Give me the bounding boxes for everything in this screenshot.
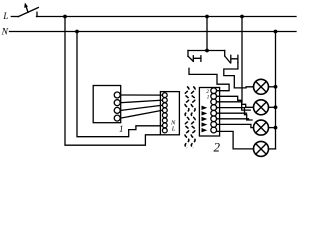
wire EL3 to N bus bbox=[269, 127, 276, 129]
switch S1 fixed contact bbox=[36, 12, 38, 16]
wire: L drop wrapping under box 1 to control unit bbox=[65, 17, 160, 146]
wire L rail bbox=[37, 16, 297, 18]
wire: K1 output to receiver terminal 2 bbox=[189, 68, 229, 90]
wire EL4 to N bus bbox=[269, 148, 276, 150]
svg-text:N: N bbox=[1, 27, 9, 37]
wire EL1 to N bus bbox=[269, 86, 276, 88]
lamp EL2 bbox=[254, 100, 269, 115]
wire box1 d to control unit bbox=[121, 110, 163, 118]
contact K2 blade bbox=[225, 56, 231, 63]
wire: receiver out 7 to lamp EL3 bbox=[217, 124, 254, 127]
lamp EL3 bbox=[254, 120, 269, 135]
radio link wavy line 1 bbox=[185, 87, 189, 148]
wire: L feed to receiver terminal 1 bbox=[217, 17, 243, 102]
contact K1 fixed contact bbox=[193, 56, 201, 62]
node: L tap for contact bus bbox=[205, 15, 209, 19]
svg-text:L: L bbox=[2, 11, 8, 21]
node: N tap right bbox=[274, 30, 278, 34]
receiver pin triangle t8 bbox=[202, 128, 208, 132]
node: contact bus junction bbox=[205, 49, 209, 53]
box 1 terminal d bbox=[114, 115, 120, 121]
node: EL1 junction bbox=[274, 85, 278, 89]
receiver box 2 bbox=[199, 88, 219, 137]
wire EL2 to N bus bbox=[269, 106, 276, 108]
wire box1 c to control unit bbox=[121, 105, 163, 110]
switch S1 actuator arrow bbox=[24, 3, 28, 13]
wire: K2 output to lamp EL1 bbox=[224, 63, 254, 88]
contact K1 blade bbox=[188, 56, 193, 61]
switch S1 blade bbox=[18, 8, 38, 17]
wire box1 b to control unit bbox=[121, 100, 163, 103]
wire: drop to contact bus bbox=[206, 17, 208, 51]
wire: receiver out 3 stub bbox=[217, 102, 251, 110]
control unit box (transmitter side of remote device) bbox=[160, 92, 179, 135]
receiver pin triangle t4 bbox=[202, 106, 208, 110]
contact K1 lead bbox=[187, 51, 189, 57]
switch S1 lead bbox=[11, 16, 18, 18]
contact K2 fixed contact bbox=[231, 55, 238, 62]
node: L tap left bbox=[63, 15, 67, 19]
node: EL3 junction bbox=[274, 126, 278, 130]
lamp EL4 bbox=[254, 141, 269, 156]
receiver terminals bbox=[211, 88, 217, 133]
receiver pin triangle t7 bbox=[202, 122, 208, 126]
box 1 terminal c bbox=[114, 107, 120, 113]
svg-text:1: 1 bbox=[119, 124, 124, 134]
svg-text:1: 1 bbox=[207, 94, 210, 100]
box 1 terminal a bbox=[114, 92, 120, 98]
control unit terminals bbox=[162, 93, 167, 133]
receiver pin triangle t5 bbox=[202, 111, 208, 115]
wire box1 a to control unit bbox=[121, 94, 163, 96]
lamp EL1 bbox=[254, 79, 269, 94]
wire: receiver out 5 stub bbox=[217, 112, 247, 114]
wire: receiver out 2 to lamp EL2 bbox=[217, 96, 254, 107]
svg-text:2: 2 bbox=[214, 140, 221, 155]
wire N rail bbox=[10, 31, 297, 33]
wire: receiver out 6 stub bbox=[217, 118, 249, 120]
wire: N bus down to lamps bbox=[275, 32, 277, 149]
receiver pin triangle t6 bbox=[202, 117, 208, 121]
node: EL2 junction bbox=[274, 105, 278, 109]
transmitter box 1 bbox=[93, 86, 121, 123]
wire: receiver out 4 stub bbox=[217, 108, 253, 120]
contact K2 lead bbox=[224, 51, 226, 57]
wire: contact bus bbox=[188, 50, 225, 52]
wire: N drop wrapping under box 1 to control unit bbox=[77, 32, 163, 137]
radio link wavy line 2 bbox=[191, 87, 195, 148]
svg-text:L: L bbox=[171, 126, 176, 133]
wire: receiver out 8 to lamp EL4 bbox=[217, 131, 254, 149]
box 1 terminal b bbox=[114, 100, 120, 106]
node: L tap right bbox=[240, 15, 244, 19]
node: N tap left bbox=[75, 30, 79, 34]
